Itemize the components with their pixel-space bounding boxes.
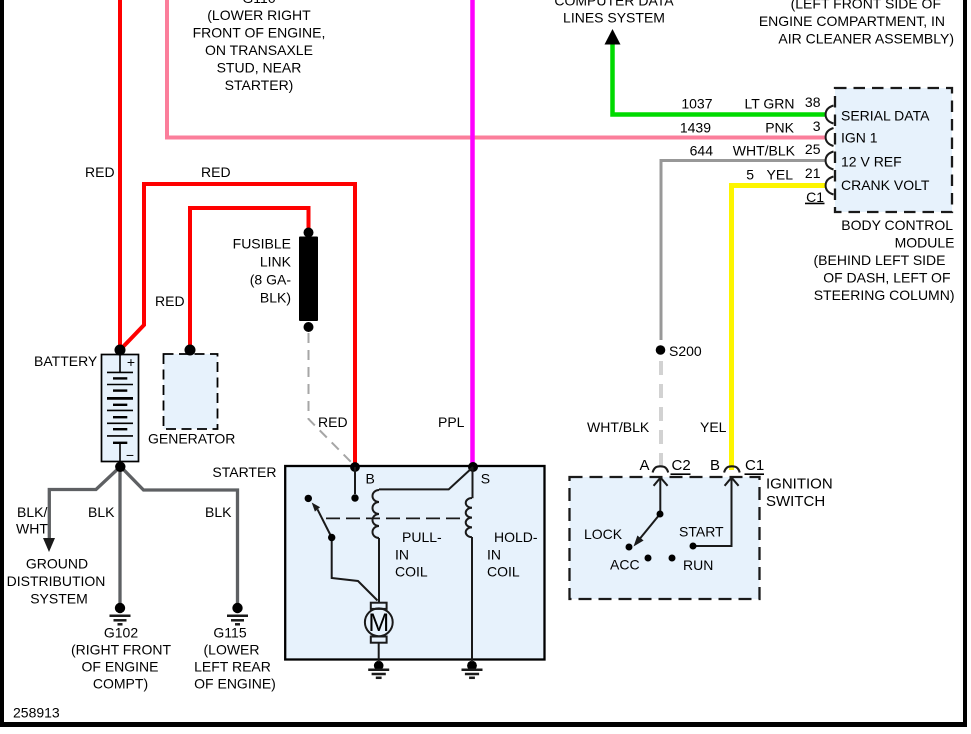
- svg-text:(BEHIND LEFT SIDE: (BEHIND LEFT SIDE: [814, 252, 946, 268]
- svg-text:G102: G102: [104, 625, 138, 641]
- svg-text:−: −: [126, 447, 134, 463]
- svg-text:RED: RED: [155, 293, 185, 309]
- svg-text:38: 38: [805, 94, 821, 110]
- svg-text:DISTRIBUTION: DISTRIBUTION: [7, 573, 106, 589]
- svg-text:OF ENGINE): OF ENGINE): [194, 676, 276, 692]
- svg-text:BLK: BLK: [88, 504, 115, 520]
- svg-text:OF DASH, LEFT OF: OF DASH, LEFT OF: [823, 269, 950, 285]
- svg-text:AIR CLEANER ASSEMBLY): AIR CLEANER ASSEMBLY): [778, 31, 954, 47]
- svg-text:BLK/: BLK/: [17, 504, 47, 520]
- svg-text:M: M: [368, 609, 389, 637]
- svg-text:IN: IN: [487, 547, 501, 563]
- svg-text:BLK: BLK: [205, 504, 232, 520]
- svg-text:1037: 1037: [681, 96, 712, 112]
- svg-text:644: 644: [690, 143, 714, 159]
- svg-text:SERIAL DATA: SERIAL DATA: [841, 108, 930, 124]
- svg-text:YEL: YEL: [700, 419, 727, 435]
- svg-text:LINK: LINK: [260, 254, 292, 270]
- svg-text:12 V REF: 12 V REF: [841, 154, 902, 170]
- svg-text:PNK: PNK: [765, 120, 794, 136]
- svg-text:WHT/BLK: WHT/BLK: [733, 143, 796, 159]
- svg-text:S: S: [481, 471, 490, 487]
- svg-text:C1: C1: [745, 457, 764, 474]
- svg-text:258913: 258913: [13, 705, 60, 721]
- svg-text:PPL: PPL: [438, 414, 465, 430]
- svg-text:MODULE: MODULE: [895, 234, 955, 250]
- svg-text:B: B: [710, 457, 720, 474]
- svg-text:SWITCH: SWITCH: [766, 493, 825, 510]
- svg-text:HOLD-: HOLD-: [494, 529, 538, 545]
- svg-text:WHT/BLK: WHT/BLK: [587, 419, 650, 435]
- svg-text:START: START: [679, 524, 724, 540]
- svg-text:ACC: ACC: [610, 557, 640, 573]
- svg-text:+: +: [127, 354, 135, 370]
- svg-text:BLK): BLK): [260, 290, 291, 306]
- svg-text:STEERING COLUMN): STEERING COLUMN): [814, 287, 955, 303]
- svg-text:CRANK VOLT: CRANK VOLT: [841, 177, 930, 193]
- svg-text:3: 3: [813, 118, 821, 134]
- svg-text:LINES SYSTEM: LINES SYSTEM: [563, 10, 665, 26]
- svg-text:COIL: COIL: [395, 563, 428, 579]
- svg-text:G115: G115: [213, 625, 246, 641]
- svg-text:YEL: YEL: [767, 167, 794, 183]
- svg-text:COMPT): COMPT): [93, 676, 148, 692]
- svg-text:ON TRANSAXLE: ON TRANSAXLE: [205, 42, 313, 58]
- svg-text:GROUND: GROUND: [26, 556, 88, 572]
- svg-text:RED: RED: [201, 164, 231, 180]
- svg-text:IGN 1: IGN 1: [841, 130, 878, 146]
- svg-text:25: 25: [805, 141, 821, 157]
- svg-text:ENGINE COMPARTMENT, IN: ENGINE COMPARTMENT, IN: [759, 13, 945, 29]
- svg-text:LT GRN: LT GRN: [744, 96, 794, 112]
- svg-text:IN: IN: [395, 547, 409, 563]
- svg-text:(LEFT FRONT SIDE OF: (LEFT FRONT SIDE OF: [791, 0, 941, 12]
- svg-text:S200: S200: [669, 343, 702, 359]
- svg-text:1439: 1439: [680, 120, 711, 136]
- svg-text:COIL: COIL: [487, 563, 520, 579]
- svg-text:(RIGHT FRONT: (RIGHT FRONT: [71, 642, 172, 658]
- svg-text:RED: RED: [318, 414, 348, 430]
- svg-text:STUD, NEAR: STUD, NEAR: [217, 59, 302, 75]
- svg-text:C2: C2: [672, 457, 691, 474]
- svg-text:FRONT OF ENGINE,: FRONT OF ENGINE,: [193, 25, 326, 41]
- svg-text:LEFT REAR: LEFT REAR: [194, 659, 271, 675]
- svg-text:A: A: [640, 457, 650, 474]
- svg-text:RED: RED: [85, 164, 115, 180]
- svg-text:5: 5: [746, 167, 754, 183]
- svg-text:(LOWER RIGHT: (LOWER RIGHT: [207, 7, 311, 23]
- svg-text:BATTERY: BATTERY: [34, 353, 98, 369]
- svg-text:BODY CONTROL: BODY CONTROL: [841, 217, 953, 233]
- svg-text:FUSIBLE: FUSIBLE: [233, 236, 291, 252]
- svg-text:STARTER: STARTER: [212, 464, 276, 480]
- svg-text:PULL-: PULL-: [402, 529, 442, 545]
- svg-text:STARTER): STARTER): [225, 77, 294, 93]
- svg-text:21: 21: [805, 165, 821, 181]
- svg-text:(8 GA-: (8 GA-: [250, 272, 292, 288]
- svg-text:(LOWER: (LOWER: [204, 642, 260, 658]
- svg-text:COMPUTER DATA: COMPUTER DATA: [554, 0, 674, 9]
- svg-text:GENERATOR: GENERATOR: [148, 431, 235, 447]
- svg-text:B: B: [366, 471, 375, 487]
- svg-text:LOCK: LOCK: [584, 526, 623, 542]
- svg-text:G110: G110: [242, 0, 275, 6]
- svg-text:IGNITION: IGNITION: [766, 475, 833, 492]
- svg-text:SYSTEM: SYSTEM: [30, 591, 88, 607]
- svg-text:WHT: WHT: [16, 521, 48, 537]
- svg-text:OF ENGINE: OF ENGINE: [81, 659, 158, 675]
- svg-text:RUN: RUN: [683, 557, 713, 573]
